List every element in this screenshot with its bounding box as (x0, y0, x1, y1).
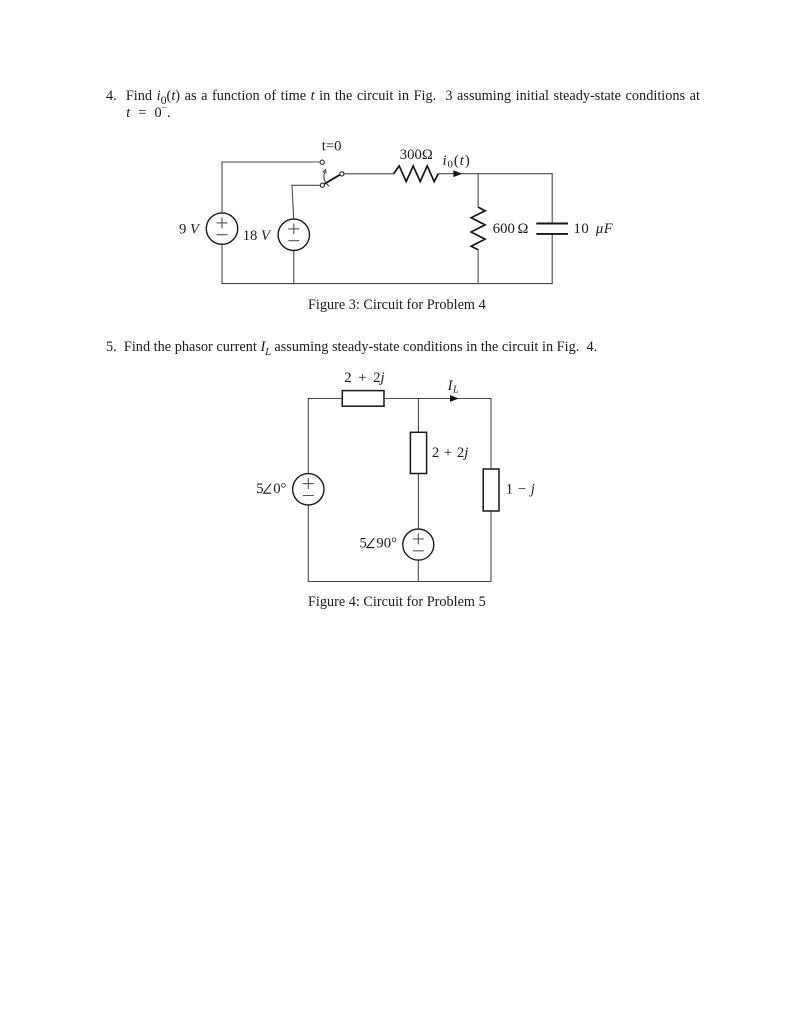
svg-text:9 V: 9 V (179, 222, 201, 238)
svg-text:IL: IL (447, 378, 459, 396)
figure 4 caption (308, 594, 486, 611)
VS1 minus sign (303, 495, 313, 497)
impedance Z1 2+2j box (top) (342, 391, 384, 407)
wire bottom circuit 1 (222, 283, 552, 285)
wire right vertical upper (490, 399, 492, 470)
svg-text:600 Ω: 600 Ω (493, 221, 529, 237)
svg-text:t=0: t=0 (322, 139, 342, 155)
wire 600ohm branch upper (477, 174, 479, 207)
wire left vertical upper circuit 2 (307, 399, 309, 474)
wire 18V branch lower (293, 251, 295, 284)
figure 3 caption (308, 297, 486, 314)
svg-text:0°: 0° (273, 481, 286, 497)
VS2 minus sign (413, 550, 423, 552)
impedance Z3 1-j box (right) (483, 469, 499, 511)
svg-text:5: 5 (360, 536, 367, 552)
wire capacitor branch lower (551, 234, 553, 284)
V2 minus sign (289, 240, 299, 242)
wire left vertical upper (221, 162, 223, 213)
wire top-left (9V top to switch) (222, 161, 320, 163)
switch SW1 terminal common (320, 183, 324, 187)
V1 minus sign (217, 234, 227, 236)
V2 plus sign (289, 224, 299, 234)
svg-text:2 + 2j: 2 + 2j (432, 445, 468, 461)
wire resistor to right corner (438, 173, 552, 175)
wire 600ohm branch lower (477, 250, 479, 284)
wire middle branch lower (417, 560, 419, 581)
label 5 angle 0 angle symbol (264, 484, 272, 494)
svg-text:10 μF: 10 μF (574, 221, 614, 237)
voltage source V2 18V circle (278, 219, 309, 250)
resistor 600ohm zigzag (471, 207, 485, 250)
wire 18V branch slant (292, 185, 294, 219)
switch SW1 motion arrow arc (324, 172, 329, 186)
wire 18V branch horizontal (292, 184, 320, 186)
V1 plus sign (217, 218, 227, 228)
problem 4 statement line 1 (106, 88, 700, 105)
switch SW1 blade (323, 172, 344, 185)
capacitor C1 plate top (536, 223, 568, 225)
wire top left segment circuit 2 (308, 398, 342, 400)
wire top right segment circuit 2 (384, 398, 491, 400)
problem 4 statement line 2 (126, 105, 170, 122)
wire bottom circuit 2 (308, 581, 491, 583)
voltage source V1 9V circle (206, 213, 237, 244)
source VS1 5 angle 0 circle (293, 474, 324, 505)
svg-text:18 V: 18 V (243, 228, 272, 244)
svg-text:2 + 2j: 2 + 2j (344, 370, 384, 386)
VS2 plus sign (413, 534, 423, 544)
switch SW1 motion arrowhead (323, 170, 326, 174)
label 5 angle 90 angle symbol (367, 538, 375, 548)
svg-text:i0(t): i0(t) (443, 153, 471, 171)
wire middle branch upper (417, 399, 419, 433)
svg-text:1 − j: 1 − j (506, 481, 536, 497)
capacitor C1 plate bottom (536, 233, 568, 235)
svg-text:5: 5 (256, 481, 263, 497)
switch SW1 terminal blade-end (340, 172, 344, 176)
switch SW1 terminal top (320, 160, 324, 164)
source VS2 5 angle 90 circle (403, 529, 434, 560)
wire switch to resistor (344, 173, 394, 175)
current arrow i0(t) (453, 170, 462, 177)
wire left vertical lower circuit 2 (307, 505, 309, 582)
wire middle branch mid (417, 474, 419, 530)
wire right vertical lower (490, 511, 492, 582)
wire left vertical lower (221, 244, 223, 283)
resistor 300ohm zigzag (394, 166, 439, 182)
svg-text:90°: 90° (376, 536, 397, 552)
impedance Z2 2+2j box (middle) (410, 432, 426, 473)
svg-text:300Ω: 300Ω (400, 147, 433, 163)
VS1 plus sign (303, 479, 313, 489)
problem 5 statement (106, 339, 597, 356)
wire capacitor branch upper (551, 174, 553, 224)
current arrow IL (450, 395, 459, 402)
